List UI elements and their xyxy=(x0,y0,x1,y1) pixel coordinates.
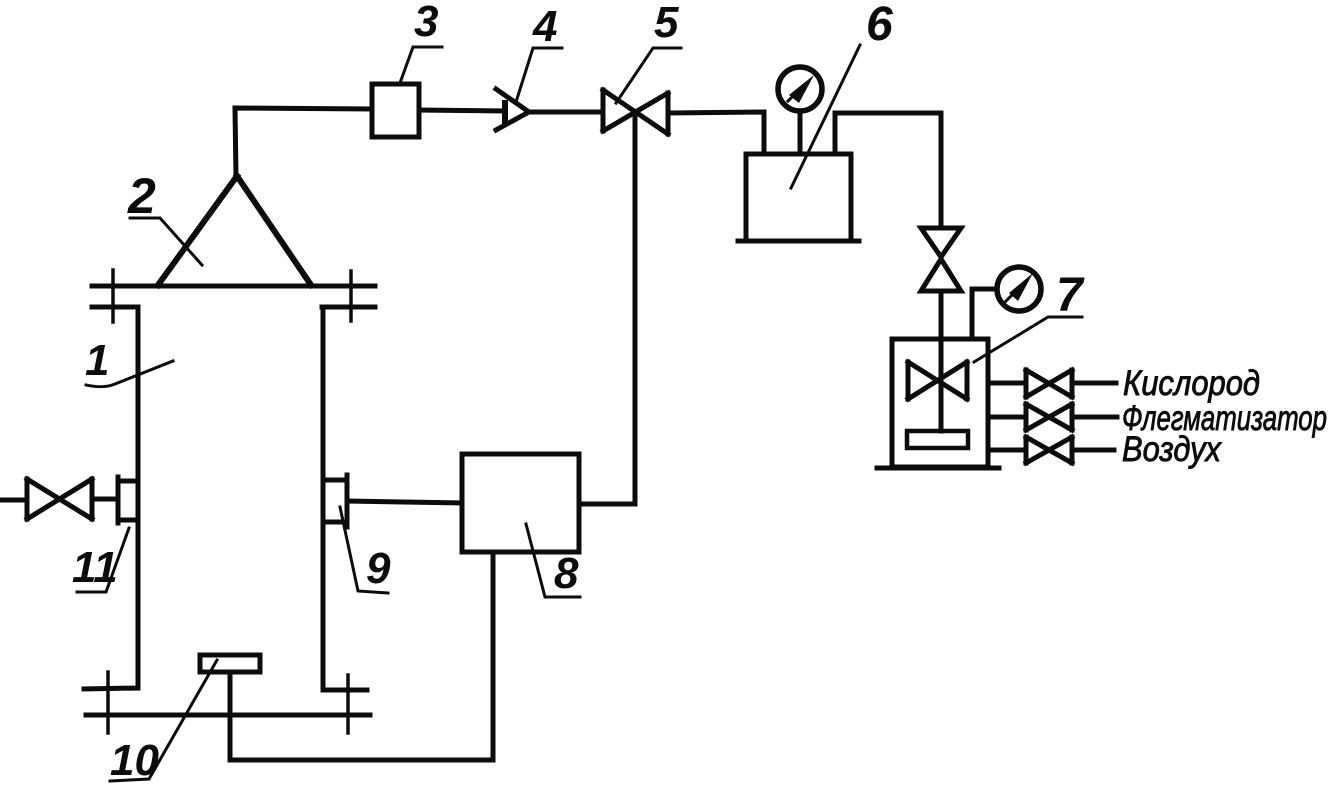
cone hopper 2 xyxy=(158,176,311,285)
label 1 leader xyxy=(86,361,173,387)
svg-text:6: 6 xyxy=(866,0,893,51)
pressure gauge on unit 7 xyxy=(972,267,1041,339)
valve 5 xyxy=(603,90,668,134)
svg-text:3: 3 xyxy=(414,0,438,46)
nozzle 11 on vessel left wall xyxy=(118,477,138,523)
wire: oxygen line from unit 7 xyxy=(988,381,1026,386)
check valve 4 xyxy=(496,89,529,130)
wire: phlegmatizer label line xyxy=(1072,415,1117,420)
svg-text:11: 11 xyxy=(72,543,118,592)
vessel 1 top flange xyxy=(92,286,375,307)
wire: air label line xyxy=(1072,448,1114,453)
wire: air line from unit 7 xyxy=(988,448,1026,453)
label 9 leader xyxy=(340,507,388,593)
label 5 leader xyxy=(616,48,681,103)
wire: stub from vertical valve to burner unit 7 xyxy=(939,291,944,339)
label 11 leader xyxy=(77,528,129,592)
air supply valve xyxy=(1026,437,1072,463)
label 4 leader xyxy=(516,48,562,102)
vessel 1 bottom closure line xyxy=(86,713,370,718)
svg-text:2: 2 xyxy=(127,168,156,224)
vessel 1 top centerline ticks xyxy=(113,270,351,322)
wire: oxygen label line xyxy=(1072,381,1116,386)
phlegmatizer supply valve xyxy=(1026,404,1072,430)
nozzle 9 on vessel right wall xyxy=(323,475,347,527)
filter box 3 xyxy=(372,84,419,137)
label 8 leader xyxy=(526,524,580,597)
oxygen supply valve xyxy=(1026,370,1072,397)
svg-text:Воздух: Воздух xyxy=(1122,430,1222,469)
label 7 leader xyxy=(974,317,1082,362)
vessel 1 left wall xyxy=(84,307,138,689)
wire: pipe from filter 3 to check valve 4 xyxy=(419,110,505,111)
receiver box 6 xyxy=(738,154,859,241)
svg-text:5: 5 xyxy=(654,0,679,47)
label 6 leader xyxy=(791,45,860,188)
drain valve at nozzle 11 xyxy=(2,479,118,519)
wire: pipe from nozzle 9 to mixer 8 xyxy=(347,501,462,503)
vessel 1 bottom centerline ticks xyxy=(108,672,348,733)
svg-text:9: 9 xyxy=(366,544,391,593)
wire: pipe from check valve 4 to valve 5 xyxy=(529,110,603,115)
label 2 leader xyxy=(130,218,202,265)
svg-text:Кислород: Кислород xyxy=(1123,364,1260,403)
svg-text:1: 1 xyxy=(85,336,109,385)
vessel 1 right wall xyxy=(323,307,367,690)
wire: pipe from valve 5 to downcomer corner xyxy=(669,112,764,154)
vertical control valve (unnumbered) xyxy=(921,228,961,291)
label 10 leader xyxy=(110,660,217,781)
bubbler plate 10 xyxy=(200,655,260,760)
wire: vertical pipe from valve 5 down to mixer 8 outlet line xyxy=(633,114,638,504)
wire: pipe from receiver 6 to vertical valve xyxy=(835,113,941,227)
pressure gauge on receiver 6 xyxy=(778,67,822,153)
burner unit box 7 xyxy=(877,339,999,468)
internal valve of unit 7 xyxy=(907,339,968,448)
wire: bottom return pipe to mixer 8 xyxy=(230,552,493,760)
svg-text:8: 8 xyxy=(554,549,579,598)
wire: pipe from mixer 8 to riser xyxy=(579,502,635,507)
label 3 leader xyxy=(400,47,442,83)
wire: phlegmatizer line from unit 7 xyxy=(988,415,1026,420)
mixer box 8 xyxy=(462,454,579,552)
svg-text:4: 4 xyxy=(532,2,557,51)
wire: top pipe from vessel riser to filter 3 xyxy=(235,108,372,177)
svg-text:7: 7 xyxy=(1056,269,1085,322)
svg-text:10: 10 xyxy=(110,736,159,785)
